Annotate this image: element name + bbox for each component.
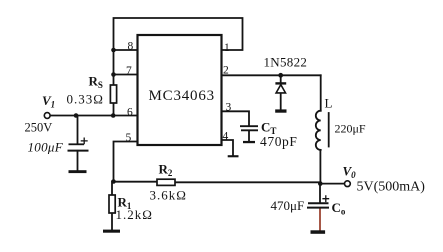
svg-text:2: 2 [223, 65, 229, 77]
svg-text:4: 4 [223, 131, 229, 143]
svg-text:250V: 250V [25, 121, 53, 135]
svg-text:3.6kΩ: 3.6kΩ [150, 188, 187, 203]
svg-text:7: 7 [126, 65, 132, 77]
svg-text:8: 8 [128, 41, 134, 53]
svg-text:5V(500mA): 5V(500mA) [357, 180, 426, 195]
svg-text:6: 6 [127, 107, 133, 119]
svg-text:470μF: 470μF [271, 198, 305, 213]
svg-text:5: 5 [126, 132, 132, 144]
svg-text:L: L [325, 96, 333, 111]
svg-text:1: 1 [224, 42, 230, 54]
svg-text:100μF: 100μF [28, 140, 64, 155]
svg-text:0.33Ω: 0.33Ω [67, 92, 104, 107]
svg-text:3: 3 [226, 102, 232, 114]
svg-text:1N5822: 1N5822 [264, 55, 308, 70]
svg-text:220μF: 220μF [335, 122, 366, 136]
svg-text:1.2kΩ: 1.2kΩ [116, 207, 153, 222]
svg-text:MC34063: MC34063 [149, 88, 215, 104]
svg-text:470pF: 470pF [260, 134, 298, 149]
